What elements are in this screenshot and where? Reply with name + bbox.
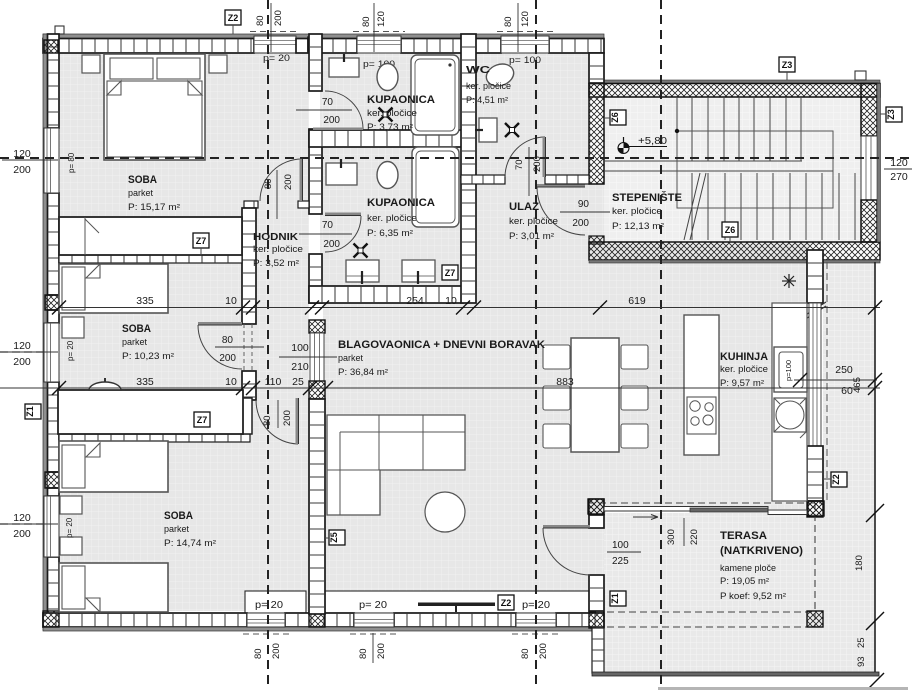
thermal break north at bath east wall [462,37,475,51]
wall: staircase east hatched lower [861,200,877,242]
wall piece right of SOBA1 door [298,201,309,208]
svg-text:Z6: Z6 [725,225,736,235]
svg-text:80: 80 [222,335,234,346]
bath1 shower tub [411,55,459,135]
section line vertical x=268 [267,0,269,690]
door SOBA3 [256,400,298,444]
svg-text:93: 93 [856,656,867,667]
wall: staircase west below door [589,236,604,244]
svg-text:parket: parket [122,337,147,347]
window S2 [354,613,394,627]
svg-text:ker. pločice: ker. pločice [466,81,511,91]
wall A: corridor / SOBA2 upper [242,208,256,324]
vent square on stair north wall [855,71,866,80]
svg-text:Z5: Z5 [329,532,339,543]
eave dashes below south windows [243,633,289,635]
oven unit [774,347,807,392]
wall: north exterior facade strip [43,34,604,39]
bath2 washing machine 1 [346,260,379,284]
stair door to ULAZ [537,187,585,235]
svg-text:p= 20: p= 20 [522,600,550,611]
svg-text:120: 120 [376,11,387,27]
svg-text:parket: parket [128,188,153,198]
svg-text:210: 210 [291,361,309,373]
wall: west exterior masonry [48,34,60,128]
svg-text:parket: parket [338,353,363,363]
bath1 door arc [325,91,363,129]
svg-text:225: 225 [612,556,629,567]
svg-text:120: 120 [520,11,531,27]
sofa L-shape [327,415,465,515]
section box Z2 top [225,10,241,25]
svg-text:parket: parket [164,524,189,534]
svg-text:ker. pločice: ker. pločice [720,364,768,374]
svg-text:200: 200 [283,174,294,190]
svg-text:200: 200 [572,218,589,229]
dashed roof line east of kitchen [826,262,828,503]
terrace dashed boundary east [814,503,816,627]
svg-text:80: 80 [503,16,514,27]
svg-text:P: 3,73 m²: P: 3,73 m² [367,122,413,132]
svg-text:120: 120 [13,512,31,524]
wall: between bathrooms [309,130,463,147]
section box Z3 top right [779,57,795,72]
wall lamp symbol [85,378,125,390]
wall: WC south east part [545,175,589,184]
dresser SOBA3 b [60,537,82,555]
svg-text:200: 200 [219,353,236,364]
floor: bedroom SOBA 15,17 (parket) [59,53,309,257]
WC sink [475,118,497,142]
svg-text:p= 20: p= 20 [65,517,74,538]
double bed SOBA1 [104,54,205,160]
svg-text:kamene ploče: kamene ploče [720,563,776,573]
svg-text:P: 12,13 m²: P: 12,13 m² [612,221,664,231]
partition SOBA1/SOBA2 [59,255,242,263]
wall: bathroom south [309,286,463,303]
wall: WC south west part [461,175,505,184]
window S1 120/p=20 [247,613,285,627]
svg-text:300: 300 [666,529,677,545]
svg-text:P: 6,35 m²: P: 6,35 m² [367,228,413,238]
svg-text:Z2: Z2 [228,13,239,23]
svg-text:80: 80 [358,648,369,659]
svg-text:KUPAONICA: KUPAONICA [367,197,435,209]
window W1 SOBA1 120x200 p=80 [44,128,59,193]
svg-text:100: 100 [612,540,629,551]
svg-text:(NATKRIVENO): (NATKRIVENO) [720,545,803,557]
axis dashes left margin y=352 [0,351,44,353]
svg-text:Z1: Z1 [610,593,620,604]
nightstand right [209,55,227,73]
WC toilet [483,60,516,89]
wall: bathroom east / WC west [461,34,476,177]
floor: bedroom SOBA 14,74 [59,440,309,611]
thermal break square south-east corner of living room [589,612,604,628]
svg-text:P: 3,52 m²: P: 3,52 m² [253,258,299,268]
svg-text:120: 120 [13,340,31,352]
floor: terrace TERASA [604,513,875,674]
door living to terrace [543,528,590,575]
window W2 SOBA2 120x200 [44,323,59,382]
dresser SOBA2 [62,317,84,338]
svg-text:200: 200 [282,410,293,426]
svg-text:70: 70 [322,220,334,231]
svg-text:SOBA: SOBA [122,323,151,335]
vent square on north wall [55,26,64,34]
eave dashes above north windows [250,31,300,33]
section box Z1 terrace [610,591,626,606]
svg-text:p= 20: p= 20 [263,53,290,64]
svg-text:200: 200 [273,10,284,26]
wall A: corridor / SOBA2 lower [242,371,256,400]
dining chairs left [543,345,570,369]
closet SOBA2 [58,390,243,434]
WC floor drain [505,123,519,137]
svg-text:180: 180 [854,555,865,571]
section line vertical x=536 [535,0,537,690]
svg-text:70: 70 [514,159,525,170]
floor: bedroom SOBA 10,23 [59,263,245,434]
svg-text:619: 619 [628,295,646,307]
svg-text:Z6: Z6 [610,112,620,123]
section line vertical x=661 [660,0,662,690]
svg-text:254: 254 [406,295,424,307]
svg-text:220: 220 [689,529,700,545]
stair break line [684,173,706,240]
boiler symbol [782,274,796,288]
svg-text:80: 80 [361,16,372,27]
cropped drawing content at bottom edge [658,687,908,690]
svg-text:p= 20: p= 20 [255,600,283,611]
svg-text:80: 80 [520,648,531,659]
stair treads upper flight [677,97,801,161]
svg-text:SOBA: SOBA [164,510,193,522]
wall: staircase east hatched upper [861,84,877,137]
svg-text:200: 200 [323,115,340,126]
floor: staircase [604,95,861,244]
thermal break at wall B south junction [309,612,325,627]
section box Z5 wall B [329,530,345,545]
svg-text:25: 25 [856,637,867,648]
nightstand left [82,55,100,73]
svg-text:110: 110 [265,376,282,388]
wall: south exterior masonry [43,613,247,627]
svg-text:80: 80 [253,648,264,659]
svg-text:200: 200 [271,643,282,659]
svg-text:270: 270 [890,171,908,183]
closet edge piece by SOBA3 door [242,398,252,434]
svg-text:KUHINJA: KUHINJA [720,351,768,363]
kitchen east wall thermal break [807,501,823,517]
floor: doorway stair to ULAZ [589,184,606,242]
svg-text:P: 15,17 m²: P: 15,17 m² [128,202,180,212]
svg-text:STEPENIŠTE: STEPENIŠTE [612,191,682,204]
round coffee table [425,492,465,532]
bath1 toilet [377,64,398,91]
svg-text:p= 100: p= 100 [509,55,541,66]
svg-text:80: 80 [262,415,273,426]
terrace hatch pillar bottom-right [807,611,823,627]
svg-text:120: 120 [13,148,31,160]
bath2 floor drain [354,244,368,258]
svg-text:P koef: 9,52 m²: P koef: 9,52 m² [720,591,786,601]
terrace slab east edge [874,262,876,674]
svg-text:P: 3,01 m²: P: 3,01 m² [509,231,554,241]
svg-text:200: 200 [13,164,31,176]
staircase east facade strip [877,84,881,243]
svg-text:BLAGOVAONICA + DNEVNI BORAVAK: BLAGOVAONICA + DNEVNI BORAVAK [338,339,545,351]
terrace hatch pillar top-right [808,501,824,516]
svg-text:100: 100 [291,342,309,354]
wall: south exterior facade strip [43,627,604,631]
floor: terrace east strip [823,260,875,674]
wall: west exterior facade strip [43,34,48,630]
wall B: hatch top [309,320,325,333]
wall: north exterior masonry [43,39,254,54]
svg-text:883: 883 [556,376,574,388]
bath1 sink [329,54,359,77]
bath2 sink [326,159,357,185]
bath2 toilet [377,162,398,189]
bed SOBA3 lower [59,563,168,612]
wall: bathroom west x309 [309,34,322,91]
parapet band along south glass wall [245,591,306,613]
wall: staircase north hatched [589,84,880,98]
svg-text:335: 335 [136,376,154,388]
floor: terrace below wall [592,628,606,674]
closet SOBA1 [59,217,242,255]
svg-text:HODNIK: HODNIK [253,231,298,243]
floor: ULAZ entrance [474,177,591,303]
svg-text:10: 10 [225,295,237,307]
svg-text:200: 200 [13,356,31,368]
svg-text:200: 200 [13,528,31,540]
svg-text:465: 465 [852,377,863,393]
level marker +5,80 [618,137,667,154]
svg-text:ker. pločice: ker. pločice [367,213,417,223]
svg-text:P: 9,57 m²: P: 9,57 m² [720,378,764,388]
cooktop with burners [687,397,716,434]
terrace hatch pillar top-left [588,499,604,514]
floor: corridor by bedrooms [245,208,309,442]
bed SOBA3 upper [59,441,168,492]
TV on south wall [418,603,495,613]
wall: hodnik stub [244,201,258,208]
door jamb dashes wall A opening [243,324,245,371]
svg-text:+5,80: +5,80 [638,136,667,147]
svg-text:Z7: Z7 [196,236,207,246]
kitchen counter along east wall [772,303,807,501]
kitchen east wall lower masonry [807,446,823,501]
kitchen sink [774,398,806,438]
floor: bathroom 3,73 [320,53,463,132]
svg-text:TERASA: TERASA [720,530,767,542]
wall: staircase south hatched [589,242,880,260]
wall B: hatch mid [309,381,325,399]
svg-text:200: 200 [323,239,340,250]
window break tick kitchen wall [804,302,826,320]
svg-text:90: 90 [578,199,590,210]
section box Z1 left margin [25,404,41,419]
window N3 above SOBA 80x200 [254,36,296,53]
svg-text:ker. pločice: ker. pločice [253,244,303,254]
svg-text:200: 200 [538,643,549,659]
wall: staircase north facade strip [589,80,880,84]
svg-text:Z3: Z3 [782,60,793,70]
svg-text:ker. pločice: ker. pločice [612,206,662,216]
kitchen island [684,315,719,455]
wall: living room east, upper part with thermal break [589,499,604,515]
svg-text:P: 10,23 m²: P: 10,23 m² [122,351,174,361]
svg-text:Z7: Z7 [445,268,456,278]
bath2 washing machine 2 [402,260,435,284]
dining table [571,338,619,452]
wall: staircase west hatched [589,84,604,185]
svg-text:Z1: Z1 [25,406,35,417]
svg-text:Z3: Z3 [886,109,896,120]
svg-text:SOBA: SOBA [128,174,157,186]
svg-text:KUPAONICA: KUPAONICA [367,94,435,106]
window S3 [516,613,556,627]
svg-text:ker. pločice: ker. pločice [367,108,417,118]
svg-text:250: 250 [835,364,853,376]
section box Z2 south wall [498,595,514,610]
svg-text:335: 335 [136,295,154,307]
wall piece north between N3 and bath wall [296,39,308,54]
stair eye railing rectangle [677,131,833,208]
terrace door opening lower wall [589,575,604,611]
window N1 above bathroom 80x120 [357,36,401,53]
svg-text:p= 20: p= 20 [359,600,387,611]
terrace dashed boundary south inner [596,611,815,613]
window W3 SOBA3 120x200 [44,496,59,557]
thermal break squares west wall [44,40,58,53]
svg-text:25: 25 [292,376,304,388]
dimension chain y=307 [59,307,880,309]
wall piece WC east / north-stair connector [589,53,604,83]
svg-text:P: 19,05 m²: P: 19,05 m² [720,576,769,586]
svg-text:p= 20: p= 20 [66,340,75,361]
dining chairs right [621,345,648,369]
svg-text:80: 80 [263,178,274,189]
window N2 above WC 80x120 [501,36,549,53]
dimension chain y=388 [0,387,880,389]
svg-text:Z7: Z7 [197,415,208,425]
wall B: masonry to south wall [309,399,325,614]
section line horizontal y=158 [0,157,914,159]
bath2 door arc [325,216,361,252]
kitchen east wall upper masonry [807,250,823,303]
kitchen east window 250 [809,303,821,446]
svg-text:WC: WC [466,64,491,76]
terrace side wall below building [592,628,604,673]
svg-text:Z2: Z2 [831,474,841,485]
svg-text:P: 14,74 m²: P: 14,74 m² [164,538,216,548]
svg-text:ker. pločice: ker. pločice [509,216,558,226]
svg-text:120: 120 [890,157,908,169]
svg-text:p= 80: p= 80 [67,152,76,173]
svg-text:Z2: Z2 [501,598,512,608]
terrace slab south edge [592,672,879,676]
WC door arc [505,137,545,177]
stair landing lines [604,160,802,162]
bath2 tub [412,147,459,227]
window stair east 120x270 [861,136,878,200]
floor: kitchen / dining east part [589,242,809,509]
svg-text:10: 10 [225,376,237,388]
svg-text:70: 70 [322,97,334,108]
door SOBA1 to hodnik [260,159,302,201]
stair treads lower flight [692,173,855,240]
svg-text:ULAZ: ULAZ [509,201,539,213]
section box Z3 right [886,107,902,122]
svg-text:P: 4,51 m²: P: 4,51 m² [466,95,508,105]
axis dashes left margin y=524 [0,523,44,525]
bath1 floor drain [379,108,393,122]
bed SOBA2 [59,264,168,313]
floor: living room + dining [323,303,606,611]
wall B: opening with lines [310,333,324,381]
svg-text:200: 200 [376,643,387,659]
floor: bathroom 6,35 [320,145,463,288]
door SOBA2 [198,325,242,369]
thermal break north at bath west wall [308,37,320,51]
svg-text:p=100: p=100 [784,360,793,381]
dresser SOBA3 a [60,496,82,514]
svg-text:10: 10 [445,295,457,307]
floor: WC [474,53,591,177]
section box Z2 kitchen east [831,472,847,487]
terrace sliding glass door [604,507,807,520]
terrace dashed boundary top [588,502,824,504]
svg-text:P: 36,84 m²: P: 36,84 m² [338,367,388,377]
partition SOBA2/SOBA3 [59,434,250,442]
svg-text:80: 80 [255,15,266,26]
